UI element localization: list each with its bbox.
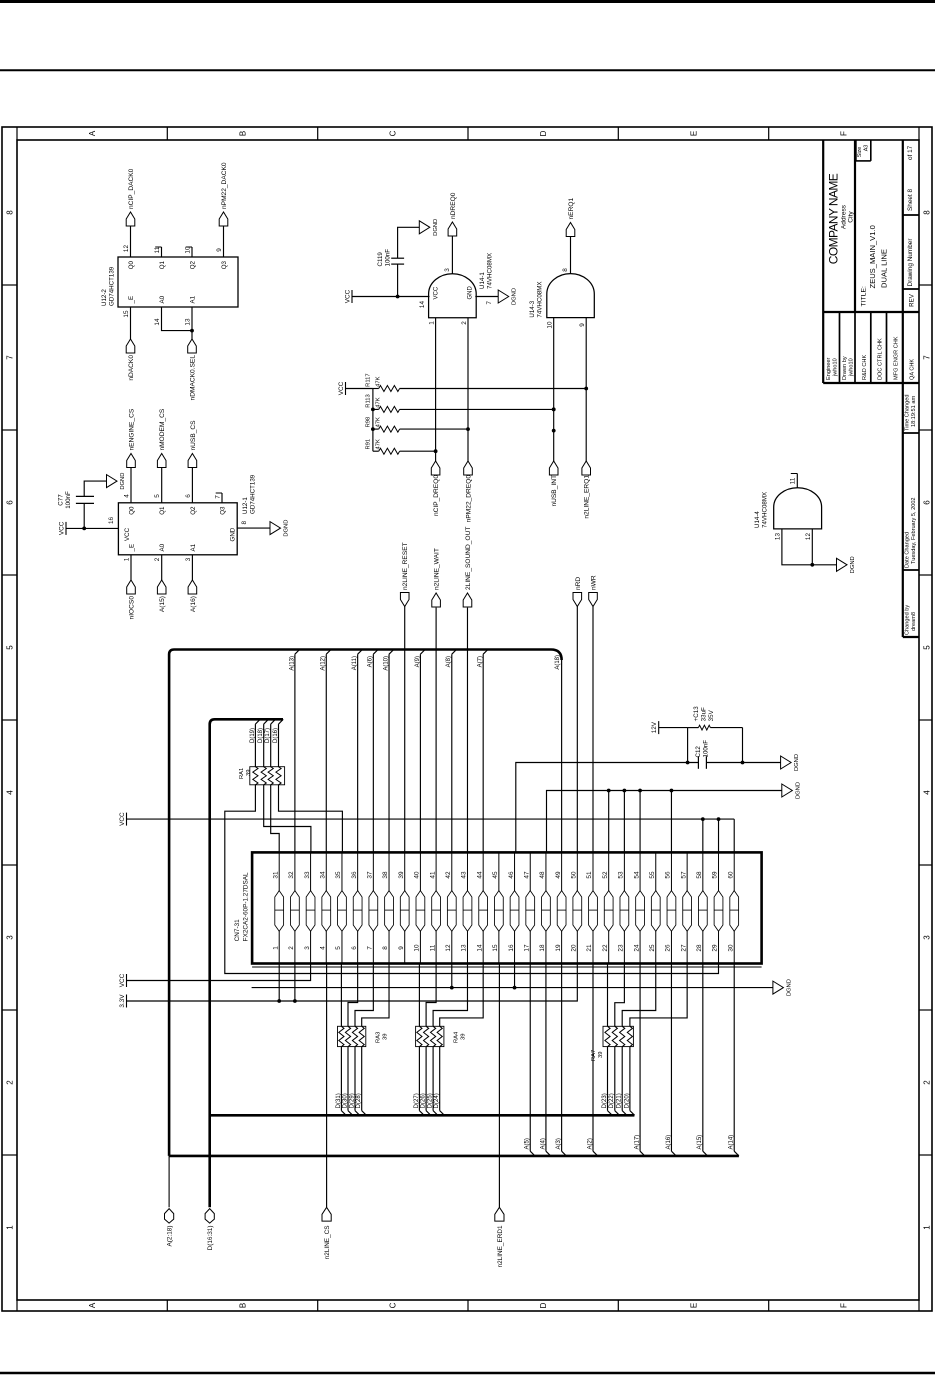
svg-text:Q2: Q2 — [190, 506, 197, 515]
U14-4 pin 13 wire — [782, 529, 812, 565]
page header rule second — [0, 69, 935, 71]
wire A(11) pin 36 — [357, 654, 359, 852]
svg-text:9: 9 — [579, 323, 586, 327]
connector pin 26/56 — [670, 852, 672, 963]
node DGND pin16 — [514, 964, 516, 988]
svg-text:Q0: Q0 — [128, 260, 135, 269]
wire R113 to pin10 node — [400, 408, 554, 410]
svg-text:GND: GND — [230, 527, 237, 541]
svg-text:A(8): A(8) — [446, 656, 452, 667]
connector pin 6/36 — [357, 852, 359, 963]
svg-text:7: 7 — [486, 301, 493, 305]
flag nPM22_DREQ0 — [464, 461, 473, 475]
svg-text:3: 3 — [5, 935, 14, 940]
svg-text:47: 47 — [523, 871, 530, 879]
flag nWR — [589, 593, 598, 607]
svg-text:1: 1 — [922, 1225, 931, 1230]
node C119 junction — [396, 295, 400, 299]
flag nDACK0 — [126, 339, 135, 353]
svg-text:nMODEM_CS: nMODEM_CS — [159, 408, 166, 450]
svg-text:37: 37 — [367, 871, 374, 879]
wire D(27) to D bus — [418, 1047, 420, 1111]
svg-text:nUSB_INT: nUSB_INT — [551, 475, 558, 507]
svg-text:53: 53 — [618, 871, 625, 879]
connector pin 28/58 — [702, 852, 704, 963]
svg-text:2: 2 — [461, 321, 468, 325]
svg-text:54: 54 — [633, 871, 640, 879]
flag D(16:31) bus — [205, 1209, 214, 1224]
op-amp U14-1 74VHC08MX AND gate — [429, 274, 477, 318]
svg-text:13: 13 — [461, 944, 468, 952]
svg-text:DGND: DGND — [794, 754, 800, 771]
flag n2LINE_ERQ1 — [582, 461, 591, 475]
svg-text:D(17): D(17) — [265, 728, 271, 743]
svg-text:60: 60 — [727, 871, 734, 879]
U12-2 pin 13 wire — [191, 307, 193, 339]
svg-text:35V: 35V — [708, 709, 715, 721]
svg-text:E: E — [689, 1303, 698, 1308]
bus A thick trunk — [169, 650, 561, 1156]
svg-text:74VHC08MX: 74VHC08MX — [487, 253, 494, 289]
svg-text:Drawn by: Drawn by — [842, 356, 848, 380]
svg-text:Q1: Q1 — [159, 260, 166, 269]
svg-text:RA7: RA7 — [591, 1050, 597, 1061]
U14-1 pin 3 wire — [451, 236, 453, 274]
power VCC rail top — [126, 813, 128, 826]
svg-text:4: 4 — [922, 790, 931, 795]
U12-1 VCC pin 16 wire — [66, 527, 118, 529]
svg-text:DGND: DGND — [512, 288, 518, 305]
zone ticks and labels — [16, 127, 18, 140]
svg-text:Tuesday, February 5, 2002: Tuesday, February 5, 2002 — [911, 497, 917, 564]
svg-text:A(15): A(15) — [159, 596, 166, 612]
wire RA3-3 to pin 7 — [355, 964, 373, 1027]
svg-text:CN7-31: CN7-31 — [234, 919, 241, 941]
svg-text:18: 18 — [539, 944, 546, 952]
svg-text:3: 3 — [185, 557, 192, 561]
svg-text:34: 34 — [319, 871, 326, 879]
svg-text:RA4: RA4 — [454, 1031, 460, 1043]
svg-text:39: 39 — [598, 1052, 604, 1058]
capacitor C77 100nF — [83, 503, 85, 528]
svg-text:Q2: Q2 — [189, 260, 196, 269]
node DGND pin 53 — [623, 791, 625, 853]
svg-text:43: 43 — [461, 871, 468, 879]
wire C77 to DGND — [84, 481, 106, 496]
wire D(18) RA1 to D bus — [263, 724, 265, 767]
flag n2LINE_RESET — [400, 593, 409, 607]
svg-text:VCC: VCC — [434, 286, 440, 299]
ground DGND at U14-1 pin7 — [498, 290, 509, 303]
svg-text:D(21): D(21) — [617, 1093, 623, 1108]
U14-3 pin 9 wire — [585, 318, 587, 461]
svg-text:5: 5 — [5, 645, 14, 650]
svg-text:nRD: nRD — [575, 577, 582, 590]
svg-text:40: 40 — [414, 871, 421, 879]
svg-text:13: 13 — [185, 318, 192, 326]
svg-text:28: 28 — [696, 944, 703, 952]
svg-text:DOC CTRL CHK: DOC CTRL CHK — [878, 338, 884, 380]
capacitor C13 33uF 35V — [688, 727, 699, 729]
svg-text:D(28): D(28) — [356, 1093, 362, 1108]
svg-text:D(19): D(19) — [250, 728, 256, 743]
connector pin 19/49 — [561, 852, 563, 963]
flag nPM22_DACK0 — [219, 212, 228, 226]
svg-text:n2LINE_ERD1: n2LINE_ERD1 — [497, 1225, 504, 1267]
svg-text:1: 1 — [429, 321, 436, 325]
svg-text:of 17: of 17 — [907, 145, 914, 160]
bus D thick horizontal — [210, 719, 283, 1207]
wire A(4) pin 18 — [545, 964, 547, 1152]
svg-text:jwho10: jwho10 — [849, 358, 855, 377]
U12-2 pin 15 wire — [130, 307, 132, 339]
svg-text:4: 4 — [124, 494, 131, 498]
svg-text:D(30): D(30) — [342, 1093, 348, 1108]
flag nCIP_DACK0 — [126, 212, 135, 226]
capacitor C119 100nF — [397, 264, 399, 296]
svg-text:2: 2 — [288, 946, 295, 950]
svg-text:REV: REV — [909, 293, 916, 307]
svg-text:7: 7 — [215, 495, 222, 499]
svg-text:27: 27 — [680, 944, 687, 952]
svg-text:D(27): D(27) — [414, 1093, 420, 1108]
svg-text:55: 55 — [649, 871, 656, 879]
svg-text:16: 16 — [108, 516, 115, 524]
svg-text:48: 48 — [539, 871, 546, 879]
svg-text:3.3V: 3.3V — [119, 994, 126, 1008]
wire A(3) pin 19 — [561, 964, 563, 1152]
connector pin 11/41 — [435, 852, 437, 963]
wire A(13) pin 32 — [294, 654, 296, 852]
wire A(14) pin 30 — [733, 964, 735, 1152]
resistor R117 47K — [373, 388, 379, 390]
node DGND pin 54 — [639, 791, 641, 853]
svg-text:RA1: RA1 — [239, 768, 245, 779]
wire n2LINE_WAIT to pin 41 — [435, 608, 437, 853]
svg-text:nWR: nWR — [591, 575, 598, 590]
power 12V — [658, 721, 660, 734]
op-amp U14-3 74VHC08MX AND gate — [547, 274, 595, 318]
connector pin 21/51 — [592, 852, 594, 963]
svg-text:R98: R98 — [366, 417, 372, 428]
svg-text:R117: R117 — [366, 373, 372, 386]
svg-text:Drawing Number: Drawing Number — [907, 238, 914, 287]
connector pin 8/38 — [388, 852, 390, 963]
svg-text:100nF: 100nF — [703, 740, 710, 758]
U14-1 VCC pin 14 wire — [352, 296, 430, 298]
svg-text:74VHC08MX: 74VHC08MX — [537, 281, 544, 317]
U12-1 pin 2 wire — [161, 555, 163, 580]
resistor array RA1 39 — [250, 767, 285, 785]
U12-2 pin 14 wire — [162, 307, 193, 331]
svg-text:D: D — [539, 130, 548, 136]
wire 12V pin 46 — [516, 763, 699, 853]
svg-text:10: 10 — [547, 321, 554, 329]
svg-text:57: 57 — [680, 871, 687, 879]
ground DGND at U12-1 pin8 — [270, 522, 281, 535]
svg-text:24: 24 — [633, 944, 640, 952]
svg-text:A(14): A(14) — [729, 1135, 735, 1150]
svg-text:C: C — [389, 1302, 398, 1308]
U12-2 pin 12 wire — [130, 226, 132, 258]
svg-text:n2LINE_RESET: n2LINE_RESET — [402, 542, 409, 590]
flag nUSB_CS — [188, 454, 197, 468]
flag A(16) — [188, 580, 197, 594]
svg-text:Q0: Q0 — [128, 506, 135, 515]
svg-text:2LINE_SOUND_OUT: 2LINE_SOUND_OUT — [465, 527, 472, 590]
connector pin 22/52 — [608, 852, 610, 963]
svg-text:A(6): A(6) — [368, 656, 374, 667]
U14-1 pin 1 wire — [435, 318, 437, 461]
ground DGND at C77 — [107, 475, 118, 488]
svg-text:FX2CA2-60P-1.27DSAL: FX2CA2-60P-1.27DSAL — [243, 872, 250, 941]
svg-text:1: 1 — [272, 946, 279, 950]
U12-1 pin 6 wire — [191, 467, 193, 503]
flag 2LINE_SOUND_OUT — [463, 593, 472, 607]
flag nENGINE_CS — [127, 454, 136, 468]
svg-text:56: 56 — [665, 871, 672, 879]
wire VCC to pins 58 59 60 — [127, 818, 735, 820]
svg-text:nDREQ0: nDREQ0 — [450, 192, 457, 219]
svg-text:44: 44 — [476, 871, 483, 879]
svg-text:COMPANY NAME: COMPANY NAME — [827, 173, 841, 264]
svg-text:7: 7 — [367, 946, 374, 950]
wire RA4-2 to pin 11 — [426, 964, 436, 1027]
svg-text:42: 42 — [445, 871, 452, 879]
wire C119 to DGND — [398, 227, 420, 258]
svg-text:C12: C12 — [695, 746, 702, 758]
wire R91 to U14-1 pin1 node — [400, 450, 436, 452]
wire RA1 C to pin 31 — [271, 785, 280, 853]
wire DGND rail bottom — [252, 987, 773, 989]
svg-text:C: C — [389, 130, 398, 136]
wire nRD to pin 50 — [576, 607, 578, 853]
U12-1 pin 5 wire — [161, 467, 163, 503]
svg-text:A(2): A(2) — [587, 1138, 593, 1149]
svg-text:32: 32 — [288, 871, 295, 879]
svg-text:39: 39 — [383, 1034, 389, 1040]
title block — [903, 636, 919, 638]
wire RA7-2 to pin 23 — [615, 964, 625, 1027]
svg-text:A(5): A(5) — [525, 1138, 531, 1149]
U12-1 pin 1 wire — [130, 555, 132, 580]
wire RA7-3 to pin 25 — [622, 964, 656, 1027]
svg-text:A(17): A(17) — [634, 1135, 640, 1150]
svg-text:39: 39 — [461, 1034, 467, 1040]
capacitor C12 100nF — [697, 756, 699, 769]
flag nMODEM_CS — [157, 454, 166, 468]
svg-text:A(9): A(9) — [415, 656, 421, 667]
svg-text:2: 2 — [154, 557, 161, 561]
svg-text:Size: Size — [857, 147, 863, 158]
svg-text:VCC: VCC — [119, 812, 126, 826]
op-amp U14-4 74VHC08MX AND gate — [774, 488, 822, 529]
svg-text:15: 15 — [123, 310, 130, 318]
svg-text:47K: 47K — [376, 397, 382, 407]
svg-text:3: 3 — [922, 935, 931, 940]
svg-text:n2LINE_CS: n2LINE_CS — [324, 1226, 331, 1260]
U14-4 pin 12 wire — [811, 529, 813, 565]
resistor R98 47K — [373, 428, 379, 430]
svg-text:nDACK0: nDACK0 — [128, 355, 135, 381]
svg-text:R&D CHK: R&D CHK — [862, 355, 868, 380]
svg-text:8: 8 — [241, 521, 248, 525]
svg-text:47K: 47K — [376, 417, 382, 427]
svg-text:33: 33 — [304, 871, 311, 879]
svg-text:Address: Address — [841, 204, 848, 229]
svg-text:n2LINE_ERQ1: n2LINE_ERQ1 — [584, 475, 591, 519]
svg-text:Time Changed: Time Changed — [905, 395, 911, 431]
wire D(21) to D bus — [621, 1047, 623, 1111]
node A0-A1 junction — [190, 329, 194, 333]
U12-2 pin 9 wire — [223, 226, 225, 258]
svg-text:13: 13 — [775, 533, 782, 541]
svg-text:33uF: 33uF — [701, 707, 708, 721]
svg-text:A(11): A(11) — [352, 656, 358, 670]
wire A(2) pin 21 — [592, 964, 594, 1152]
node DGND pin 52 — [608, 791, 610, 853]
wire RA1 D to pin 35 — [279, 785, 343, 853]
svg-text:31: 31 — [272, 871, 279, 879]
svg-text:11: 11 — [429, 944, 436, 951]
svg-text:14: 14 — [476, 944, 483, 952]
connector pin 7/37 — [372, 852, 374, 963]
svg-text:41: 41 — [429, 871, 436, 879]
svg-text:R91: R91 — [366, 439, 372, 450]
svg-text:14: 14 — [154, 318, 161, 326]
svg-text:8: 8 — [382, 946, 389, 950]
U12-1 pin 7 stub — [221, 493, 223, 503]
connector pin 5/35 — [341, 852, 343, 963]
flag nRD — [573, 593, 582, 607]
svg-text:A(7): A(7) — [478, 656, 484, 667]
flag nUSB_INT — [549, 461, 558, 475]
svg-text:A(2:18): A(2:18) — [167, 1226, 174, 1247]
U12-2 pin 10 stub — [191, 247, 193, 257]
ground DGND right rail — [782, 784, 793, 797]
svg-text:47K: 47K — [376, 439, 382, 449]
wire n2LINE_RESET to pin 39 — [404, 607, 406, 853]
svg-text:A(4): A(4) — [540, 1138, 546, 1149]
ground DGND at U14-4 — [837, 558, 848, 571]
svg-text:Changed by: Changed by — [905, 605, 911, 635]
wire RA3-4 to pin 8 — [362, 964, 389, 1027]
connector pin 4/34 — [325, 852, 327, 963]
U12-1 pin 4 wire — [130, 467, 132, 503]
svg-text:6: 6 — [185, 494, 192, 498]
svg-text:Q1: Q1 — [159, 506, 166, 515]
flag n2LINE_ERD1 — [495, 1207, 504, 1221]
wire A(16) pin 26 — [670, 964, 672, 1152]
svg-text:A(12): A(12) — [321, 656, 327, 671]
page header rule top — [0, 0, 935, 3]
svg-text:DGND: DGND — [433, 219, 439, 236]
svg-text:ZEUS_MAIN_V1.0: ZEUS_MAIN_V1.0 — [868, 225, 877, 288]
svg-text:14: 14 — [419, 301, 426, 309]
ground DGND bottom rail — [773, 981, 784, 994]
U14-3 pin 10 wire — [553, 318, 555, 461]
svg-text:C77: C77 — [58, 494, 65, 506]
flag nIOCS0 — [127, 580, 136, 594]
svg-text:A(3): A(3) — [556, 1138, 562, 1149]
svg-text:51: 51 — [586, 871, 593, 879]
svg-text:9: 9 — [398, 946, 405, 950]
svg-text:11: 11 — [790, 477, 797, 484]
wire RA4-1 to pin 10 — [418, 964, 420, 1027]
node on pin10 wire — [552, 429, 556, 433]
svg-text:35: 35 — [335, 871, 342, 879]
wire RA7-4 to pin 27 — [630, 964, 687, 1027]
wire nWR to pin 51 — [592, 607, 594, 853]
svg-text:58: 58 — [696, 871, 703, 879]
wire 2LINE_SOUND_OUT to pin 43 — [466, 608, 468, 853]
svg-text:5: 5 — [922, 645, 931, 650]
wire RA7-1 to pin 22 — [607, 964, 609, 1027]
wire RA3-1 to pin 5 — [340, 964, 342, 1027]
bus A bottom thick vertical — [169, 1155, 739, 1158]
svg-text:U12-1: U12-1 — [242, 497, 249, 514]
svg-text:46: 46 — [508, 871, 515, 879]
wire VCC rail to pin 3 — [127, 964, 311, 981]
svg-text:23: 23 — [618, 944, 625, 952]
wire D(16) RA1 to D bus — [278, 724, 280, 767]
connector pin 16/46 — [514, 852, 516, 963]
U14-1 GND pin 7 wire — [475, 296, 498, 298]
svg-text:10: 10 — [414, 944, 421, 952]
svg-text:18:19:51 am: 18:19:51 am — [911, 396, 917, 427]
wire A(15) pin 28 — [702, 964, 704, 1152]
svg-text:VCC: VCC — [124, 527, 131, 541]
svg-text:GD74HCT139: GD74HCT139 — [250, 474, 257, 514]
svg-text:nERQ1: nERQ1 — [568, 198, 575, 220]
svg-text:29: 29 — [712, 944, 719, 952]
wire A(6) pin 37 — [372, 654, 374, 852]
svg-text:F: F — [840, 131, 849, 136]
wire RA4-3 to pin 13 — [433, 964, 467, 1027]
wire A(17) pin 24 — [639, 964, 641, 1152]
resistor array RA4 39 — [416, 1026, 444, 1046]
svg-text:GD74HCT139: GD74HCT139 — [109, 266, 116, 306]
svg-text:D(23): D(23) — [602, 1093, 608, 1108]
svg-text:D(24): D(24) — [434, 1093, 440, 1108]
svg-text:_E: _E — [128, 544, 135, 553]
svg-text:17: 17 — [523, 944, 530, 952]
flag n2LINE_WAIT — [432, 593, 441, 607]
svg-text:52: 52 — [602, 871, 609, 879]
svg-text:Q3: Q3 — [221, 260, 228, 269]
svg-text:A3: A3 — [864, 145, 870, 152]
connector pin 9/39 — [404, 852, 406, 963]
svg-text:50: 50 — [571, 871, 578, 879]
svg-text:DGND: DGND — [786, 979, 792, 996]
svg-text:4: 4 — [5, 790, 14, 795]
wire D(22) to D bus — [614, 1047, 616, 1111]
power VCC rail bottom — [126, 974, 128, 987]
connector shield line — [252, 966, 761, 968]
wire RA1 B to pin 33 — [264, 785, 311, 853]
svg-text:12: 12 — [445, 944, 452, 952]
svg-text:30: 30 — [727, 944, 734, 952]
svg-text:nENGINE_CS: nENGINE_CS — [129, 408, 136, 450]
svg-text:U12-2: U12-2 — [101, 289, 108, 306]
power VCC resistor network — [345, 382, 347, 395]
svg-text:D(29): D(29) — [349, 1093, 355, 1108]
connector pin 25/55 — [655, 852, 657, 963]
svg-text:jwho10: jwho10 — [833, 358, 839, 377]
svg-text:A(15): A(15) — [697, 1135, 703, 1150]
wire D(20) to D bus — [629, 1047, 631, 1111]
svg-text:2: 2 — [922, 1080, 931, 1085]
